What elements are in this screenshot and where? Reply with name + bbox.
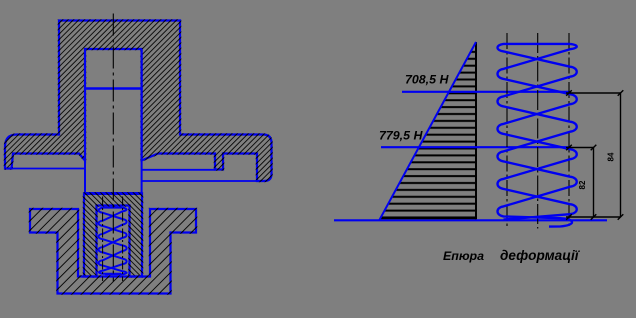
svg-text:Епюра: Епюра [443,249,484,263]
big spring strand 2 [498,44,577,227]
lower body pot (section) [30,209,196,294]
seat edge line right upper [142,169,216,171]
force diagram triangle (Epyura) [380,42,477,220]
force level line 708,5 [402,91,571,93]
big spring strand 1 [498,44,577,220]
svg-text:708,5 Н: 708,5 Н [405,73,449,87]
svg-text:779,5 Н: 779,5 Н [379,128,423,142]
svg-text:84: 84 [607,152,616,161]
dimension 82 lines [566,148,594,218]
dimension ticks [566,90,623,220]
spring coil centerline right [568,33,570,229]
small spring strand 2 [99,208,127,275]
spring guide bushing (section) [84,194,142,277]
svg-text:деформації: деформації [500,248,581,263]
seat edge line right lower [142,180,258,182]
cap body (upper housing, section) [5,21,272,182]
small spring coil centerline right [122,197,124,282]
svg-text:82: 82 [578,180,587,189]
spring coil centerline left [506,33,508,229]
main vertical centerline [112,14,114,282]
spring axis centerline [537,33,539,229]
baseline [334,219,607,221]
small spring strand 1 [99,208,127,274]
seat edge line left [6,168,85,170]
rod (valve stem) [84,49,143,194]
force level line 779,5 [381,146,571,148]
dimension 84 lines [566,93,621,217]
small spring coil centerline left [102,197,104,282]
